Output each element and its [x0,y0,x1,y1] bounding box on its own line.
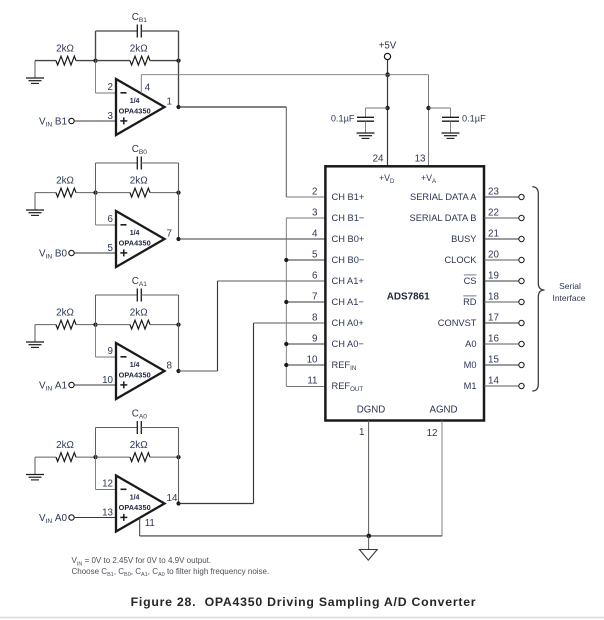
resistor 2k&#937; feedback (A1 stage) [130,320,150,329]
wire node to feedback R B1 [96,60,131,62]
node inverting input B1 [93,59,97,63]
wire +VA supply to pin 13 [428,75,430,167]
wire R to node A1 [76,324,96,326]
svg-text:RD: RD [463,297,477,307]
wire CH- reference bus [285,218,287,387]
open terminal pin 20 [519,257,524,262]
chip right pin 17 wire [484,322,519,324]
svg-text:CLOCK: CLOCK [444,255,477,265]
svg-text:OPA4350: OPA4350 [119,107,151,116]
node +5V rail [385,72,390,77]
svg-text:AGND: AGND [430,404,458,415]
chip right pin 22 wire [484,217,519,219]
node CH A1- bus [284,300,288,304]
svg-text:2kΩ: 2kΩ [130,308,148,319]
svg-text:OPA4350: OPA4350 [119,503,151,512]
wire ground to R input B0 [35,192,56,194]
output junction A1 [176,369,180,373]
brace serial interface [532,187,544,391]
svg-text:CS: CS [464,276,477,286]
resistor 2k&#937; input (B1 stage) [56,56,76,65]
svg-text:Figure 28. OPA4350 Driving Sa: Figure 28. OPA4350 Driving Sampling A/D … [131,595,477,609]
svg-text:CH B1+: CH B1+ [332,192,365,202]
open terminal pin 21 [519,236,524,241]
resistor 2k&#937; feedback (B0 stage) [130,188,150,197]
svg-text:6: 6 [108,214,114,225]
wire +5V down to rail [387,60,389,75]
resistor 2k&#937; feedback (A0 stage) [130,453,150,462]
svg-text:5: 5 [312,249,318,260]
output junction B0 [176,237,180,241]
chip right pin 20 wire [484,259,519,261]
svg-text:7: 7 [167,229,172,240]
svg-text:ADS7861: ADS7861 [387,292,430,303]
wire feedback vertical B1 [178,31,180,107]
svg-text:11: 11 [145,518,155,529]
wire +VD supply to pin 24 [387,75,389,167]
op-amp U-A1 1/4 OPA4350 [116,343,165,399]
wire feedback R to output vertical B0 [150,192,179,194]
svg-text:CONVST: CONVST [438,318,477,328]
svg-text:4: 4 [312,228,318,239]
svg-text:CH B0−: CH B0− [332,255,365,265]
node inverting input B0 [93,191,97,195]
svg-text:12: 12 [427,428,438,439]
wire feedback vertical A0 [178,428,180,504]
svg-text:CH A1−: CH A1− [332,297,364,307]
wire node to inverting input B0 [95,193,97,225]
svg-text:CH B1−: CH B1− [332,213,365,223]
svg-text:1/4: 1/4 [130,230,140,237]
wire ground rail [140,535,442,537]
chip right pin 23 wire [484,196,519,198]
svg-text:2: 2 [312,186,317,197]
svg-text:18: 18 [488,291,499,302]
node feedback/output A0 [176,455,180,459]
node feedback/output B1 [176,59,180,63]
svg-text:2kΩ: 2kΩ [56,44,74,55]
node feedback/output B0 [176,191,180,195]
wire feedback vertical B0 [178,163,180,239]
wire AGND to ground [441,421,443,536]
svg-text:Serial: Serial [559,281,581,291]
wire V_IN to non-inverting input B0 [74,252,116,254]
overline RD [463,295,476,297]
node inverting input A0 [93,455,97,459]
wire feedback R to output vertical A1 [150,324,179,326]
svg-text:2kΩ: 2kΩ [56,176,74,187]
wire node to inverting input A1 [95,325,97,357]
svg-text:3: 3 [108,111,114,122]
ground (input B0 stage) [34,193,36,210]
capacitor CB1 [95,31,97,61]
resistor 2k&#937; input (B0 stage) [56,188,76,197]
open terminal pin 14 [519,383,524,388]
svg-text:21: 21 [488,228,499,239]
svg-text:VIN A0: VIN A0 [39,513,68,525]
ground (input B1 stage) [34,61,36,78]
svg-text:2kΩ: 2kΩ [130,440,148,451]
node REF IN bus [284,363,288,367]
wire node to inverting input B1 [95,61,97,93]
wire +5V horizontal rail [141,74,428,76]
svg-text:CH A0−: CH A0− [332,339,364,349]
IC U2 ADS7861 [325,166,484,420]
node ground rail [367,534,372,539]
chip right pin 19 wire [484,280,519,282]
svg-text:0.1µF: 0.1µF [331,114,355,124]
svg-text:BUSY: BUSY [451,234,476,244]
svg-text:20: 20 [488,249,499,260]
chip right pin 16 wire [484,343,519,345]
open terminal pin 19 [519,278,524,283]
svg-text:2: 2 [108,82,113,93]
chip right pin 18 wire [484,301,519,303]
ground (VD bypass) [357,132,375,134]
svg-text:15: 15 [488,354,499,365]
wire op-amp V+ pin 4 to +5V rail [140,75,142,94]
svg-text:2kΩ: 2kΩ [56,440,74,451]
svg-text:19: 19 [488,270,499,281]
chip right pin 15 wire [484,364,519,366]
op-amp U-A0 1/4 OPA4350 [116,476,165,532]
wire feedback vertical A1 [178,295,180,371]
svg-text:23: 23 [488,186,499,197]
open terminal pin 15 [519,362,524,367]
svg-text:16: 16 [488,333,499,344]
svg-text:6: 6 [312,270,318,281]
svg-text:CH A0+: CH A0+ [332,318,364,328]
wire ground to R input B1 [35,60,56,62]
wire ground to R input A1 [35,324,56,326]
node inverting input A1 [93,323,97,327]
svg-text:SERIAL DATA A: SERIAL DATA A [410,192,477,202]
node feedback/output A1 [176,323,180,327]
wire feedback R to output vertical A0 [150,456,179,458]
svg-text:2kΩ: 2kΩ [130,176,148,187]
open terminal pin 18 [519,299,524,304]
bottom rule [0,617,604,619]
svg-text:1: 1 [167,97,172,108]
svg-text:M0: M0 [464,360,477,370]
open terminal pin 16 [519,341,524,346]
wire node to feedback R B0 [96,192,131,194]
svg-text:VIN B1: VIN B1 [39,116,68,128]
op-amp U-B0 1/4 OPA4350 [116,211,165,267]
wire feedback R to output vertical B1 [150,60,179,62]
wire DGND to ground [368,421,370,536]
svg-text:14: 14 [488,375,499,386]
svg-text:10: 10 [102,375,113,386]
wire ground to R input A0 [35,456,56,458]
wire op-amp V- pin 11 to ground rail [139,518,141,536]
overline CS [464,274,477,276]
chip right pin 21 wire [484,238,519,240]
svg-text:DGND: DGND [357,404,386,415]
svg-text:17: 17 [488,312,499,323]
svg-text:7: 7 [312,291,317,302]
wire node to feedback R A0 [96,456,131,458]
wire R to node B0 [76,192,96,194]
svg-text:VIN B0: VIN B0 [39,248,68,260]
capacitor CA0 [95,428,97,458]
wire V_IN to non-inverting input B1 [74,120,116,122]
svg-text:13: 13 [102,507,113,518]
node CH B0- bus [284,258,288,262]
node bypass cap right [426,106,430,110]
svg-text:M1: M1 [464,381,477,391]
svg-text:1/4: 1/4 [130,495,140,502]
svg-text:10: 10 [307,354,318,365]
svg-text:4: 4 [145,82,151,93]
capacitor 0.1uF (VA bypass) [429,107,451,109]
svg-text:3: 3 [312,207,318,218]
svg-text:0.1µF: 0.1µF [462,114,486,124]
ground (input A1 stage) [34,325,36,342]
open terminal pin 17 [519,320,524,325]
svg-text:CH A1+: CH A1+ [332,276,364,286]
wire A0 output to CH A0+ [179,503,254,505]
node CH A0- bus [284,342,288,346]
svg-text:A0: A0 [465,339,476,349]
svg-text:9: 9 [108,346,113,357]
svg-text:12: 12 [102,479,113,490]
svg-text:5: 5 [108,243,114,254]
svg-text:SERIAL DATA B: SERIAL DATA B [410,213,477,223]
svg-text:2kΩ: 2kΩ [56,308,74,319]
op-amp U-B1 1/4 OPA4350 [116,79,165,135]
node bypass cap left [385,106,389,110]
output junction A0 [176,501,180,505]
wire R to node A0 [76,456,96,458]
svg-text:+5V: +5V [379,41,397,52]
svg-text:8: 8 [167,361,173,372]
resistor 2k&#937; input (A1 stage) [56,320,76,329]
ground (input A0 stage) [34,457,36,474]
svg-text:OPA4350: OPA4350 [119,239,151,248]
capacitor 0.1uF (VD bypass) [366,107,388,109]
chip right pin 14 wire [484,385,519,387]
resistor 2k&#937; feedback (B1 stage) [130,56,150,65]
svg-text:1/4: 1/4 [130,98,140,105]
svg-text:VIN A1: VIN A1 [39,380,68,392]
wire B1 output to CH B1+ [179,106,287,108]
capacitor CA1 [95,295,97,325]
svg-text:8: 8 [312,312,318,323]
svg-text:11: 11 [307,375,317,386]
svg-text:13: 13 [415,154,426,165]
wire A1 output to CH A1+ [179,370,218,372]
svg-text:Interface: Interface [552,293,585,303]
resistor 2k&#937; input (A0 stage) [56,453,76,462]
svg-text:OPA4350: OPA4350 [119,371,151,380]
wire B0 output to CH B0+ [179,238,326,240]
svg-text:2kΩ: 2kΩ [130,44,148,55]
open terminal pin 22 [519,215,524,220]
wire R to node B1 [76,60,96,62]
wire node to feedback R A1 [96,324,131,326]
wire V_IN to non-inverting input A0 [74,517,116,519]
ground (system) [368,536,370,550]
svg-text:1: 1 [359,427,364,438]
svg-text:14: 14 [167,493,178,504]
svg-text:9: 9 [312,333,317,344]
svg-text:22: 22 [488,207,499,218]
wire node to inverting input A0 [95,457,97,489]
wire V_IN to non-inverting input A1 [74,384,116,386]
svg-text:24: 24 [373,154,384,165]
ground (VA bypass) [442,132,460,134]
output junction B1 [176,105,180,109]
capacitor CB0 [95,163,97,193]
open terminal pin 23 [519,194,524,199]
svg-text:1/4: 1/4 [130,362,140,369]
svg-text:CH B0+: CH B0+ [332,234,365,244]
